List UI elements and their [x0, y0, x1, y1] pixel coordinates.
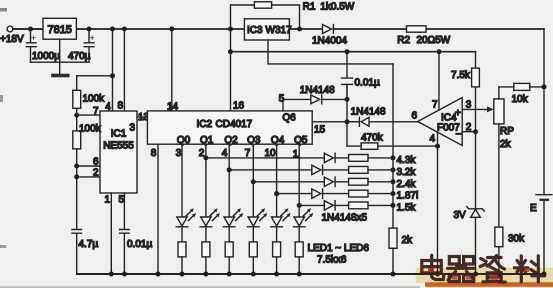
ladder row Q3 2.4k	[251, 177, 417, 190]
capacitor 0.01µ top	[342, 52, 353, 100]
svg-text:470µ: 470µ	[68, 51, 91, 62]
terminal +18V input	[7, 26, 13, 32]
svg-text:IC2: IC2	[197, 119, 213, 130]
svg-text:1: 1	[105, 195, 111, 206]
wire NE555 pin8 vertical	[123, 29, 125, 111]
svg-text:7815: 7815	[47, 24, 71, 36]
wire pin3 to CD4017 pin13	[137, 116, 147, 118]
svg-text:+: +	[455, 108, 461, 119]
node pin2	[74, 174, 79, 179]
zener 3V	[471, 209, 481, 217]
watermark char zi	[480, 256, 505, 283]
diode 1N4148 D2	[347, 117, 418, 126]
wire ladder bus vertical	[392, 64, 394, 228]
wire pin5 Q6 stub	[282, 99, 284, 111]
svg-text:R1: R1	[303, 2, 316, 13]
resistor R2	[407, 26, 427, 32]
wire second rail +15V y=51.7	[231, 51, 476, 53]
svg-text:6: 6	[411, 111, 417, 122]
resistor 470k	[347, 145, 438, 147]
svg-text:LED1 ~ LED6: LED1 ~ LED6	[308, 243, 370, 254]
svg-text:Q5: Q5	[294, 135, 308, 146]
svg-text:0.01µ: 0.01µ	[355, 78, 380, 89]
svg-text:Q3: Q3	[247, 135, 261, 146]
svg-text:Q6: Q6	[282, 113, 296, 124]
svg-text:5: 5	[119, 195, 125, 206]
wire pin14 clock	[171, 29, 173, 111]
resistor 2k bus	[389, 228, 397, 248]
svg-text:1N4148: 1N4148	[300, 85, 335, 96]
svg-text:7: 7	[432, 100, 438, 111]
svg-text:1000µ: 1000µ	[32, 51, 60, 62]
svg-text:4.7µ: 4.7µ	[79, 239, 99, 250]
wire IC3 input / CD4017 pin16 vertical	[230, 5, 232, 111]
node pin7	[74, 113, 79, 118]
svg-text:R2: R2	[397, 35, 410, 46]
svg-text:CD4017: CD4017	[216, 119, 253, 130]
svg-text:100k: 100k	[83, 94, 106, 105]
svg-text:−: −	[456, 129, 462, 141]
svg-text:IC3: IC3	[247, 25, 263, 36]
svg-text:Q1: Q1	[200, 135, 214, 146]
svg-text:+18V: +18V	[0, 34, 24, 45]
LED LED3	[223, 144, 243, 274]
svg-text:2k: 2k	[402, 235, 414, 246]
wire pin5	[123, 193, 125, 230]
svg-text:7.5k: 7.5k	[451, 70, 471, 81]
potentiometer RP 2k	[494, 99, 504, 124]
svg-text:E: E	[530, 203, 537, 214]
svg-text:4: 4	[105, 102, 111, 113]
svg-text:RP: RP	[500, 126, 514, 137]
wire main +15V rail top	[13, 28, 544, 30]
svg-text:7.5kx6: 7.5kx6	[317, 255, 347, 266]
node bottom rail junctions	[109, 272, 547, 277]
watermark char qi	[448, 257, 475, 282]
timer IC1 NE555	[100, 111, 137, 193]
svg-text:Q2: Q2	[224, 135, 238, 146]
svg-text:2k: 2k	[500, 139, 512, 150]
svg-text:20Ω5W: 20Ω5W	[417, 35, 451, 46]
svg-text:1N4148x5: 1N4148x5	[322, 213, 368, 224]
ground	[59, 39, 61, 73]
svg-text:15: 15	[314, 125, 326, 136]
svg-text:+: +	[90, 33, 95, 43]
svg-text:6: 6	[93, 157, 99, 168]
svg-text:NE555: NE555	[103, 141, 134, 152]
wire cap bottoms join	[31, 61, 90, 63]
svg-text:30k: 30k	[508, 234, 525, 245]
resistor 100k lower	[73, 131, 81, 149]
ladder row Q4 1.87l	[274, 189, 418, 202]
svg-text:Q0: Q0	[177, 135, 191, 146]
wire op-amp pin4	[437, 133, 439, 274]
wire pin2	[77, 176, 100, 178]
wire pin1 to ground	[110, 193, 112, 274]
wire op-amp pin7	[438, 52, 440, 110]
svg-text:Q4: Q4	[271, 135, 285, 146]
svg-text:8: 8	[151, 148, 157, 159]
wire pin15 reset from op-amp	[312, 121, 357, 123]
wire 100k top link	[77, 75, 113, 77]
svg-text:3: 3	[176, 148, 182, 159]
wire bottom ground rail	[77, 273, 544, 275]
wire pin6	[77, 165, 100, 167]
LED LED6	[293, 144, 313, 274]
LED LED1	[176, 144, 196, 274]
wire R1 loop top	[231, 5, 300, 29]
op-amp IC4 F007	[418, 98, 463, 146]
svg-text:1N4148: 1N4148	[351, 107, 386, 118]
svg-text:1N4004: 1N4004	[312, 36, 347, 47]
svg-text:14: 14	[167, 102, 179, 113]
svg-text:W317: W317	[266, 25, 293, 36]
svg-text:1k0.5W: 1k0.5W	[320, 2, 354, 13]
wire pin7	[77, 114, 100, 116]
wire NE555 pin4 vertical	[112, 29, 114, 111]
svg-text:1.5k: 1.5k	[397, 202, 417, 213]
svg-text:4.3k: 4.3k	[397, 155, 417, 166]
svg-text:+: +	[31, 33, 36, 43]
node pin6	[74, 164, 79, 169]
counter IC2 CD4017	[147, 111, 312, 144]
svg-text:IC1: IC1	[111, 129, 127, 140]
watermark char dian	[422, 255, 444, 279]
svg-text:470k: 470k	[361, 133, 384, 144]
svg-text:2: 2	[466, 122, 472, 133]
watermark 电器资料	[422, 255, 545, 282]
node second rail start	[228, 49, 233, 54]
regulator 7815	[43, 18, 76, 39]
watermark char liao	[514, 256, 544, 282]
node rail junctions	[28, 27, 302, 32]
resistor 10k	[499, 86, 544, 88]
resistor 100k upper	[76, 76, 78, 131]
resistor 7.5k	[475, 52, 477, 209]
svg-text:4: 4	[429, 134, 435, 145]
scan edge smudges	[0, 8, 7, 12]
resistor 30k	[495, 227, 503, 247]
capacitor C1 1000µ	[26, 29, 36, 62]
capacitor 0.01µ pin5	[120, 230, 130, 275]
svg-text:3: 3	[466, 100, 472, 111]
svg-text:7: 7	[93, 106, 99, 117]
svg-text:10k: 10k	[512, 94, 529, 105]
wire pin8 ground	[157, 144, 159, 274]
diode 1N4004	[323, 25, 332, 34]
svg-text:1.87l: 1.87l	[397, 191, 419, 202]
wire W317 ADJ to ladder bus	[268, 40, 393, 64]
LED LED2	[200, 144, 220, 274]
ladder row Q2 3.2k	[227, 165, 417, 178]
svg-text:16: 16	[233, 101, 245, 112]
svg-text:2.4k: 2.4k	[397, 179, 417, 190]
capacitor C2 470µ	[84, 29, 94, 62]
svg-text:8: 8	[117, 101, 123, 112]
ladder row Q5 1.5k	[297, 201, 417, 214]
LED LED4	[248, 144, 268, 274]
svg-text:100k: 100k	[79, 124, 102, 135]
battery E	[536, 194, 552, 196]
wire D-node vertical	[346, 84, 348, 146]
wire op-amp pin3 to pot wiper	[462, 108, 489, 110]
ladder row Q1 4.3k	[203, 153, 416, 166]
resistor R1 1k0.5W	[254, 2, 271, 8]
diode 1N4148 D1	[283, 95, 347, 104]
watermark band	[416, 268, 553, 283]
wire op-amp pin2	[462, 131, 475, 133]
svg-text:3V: 3V	[454, 210, 467, 221]
svg-text:3.2k: 3.2k	[397, 167, 417, 178]
capacitor 4.7µ	[72, 230, 82, 275]
svg-text:2: 2	[93, 168, 99, 179]
regulator IC3 W317	[244, 19, 289, 40]
svg-text:0.01µ: 0.01µ	[127, 239, 152, 250]
LED LED5	[271, 144, 291, 274]
node pin4 link	[110, 73, 115, 78]
wire right edge vertical to battery	[543, 29, 545, 274]
svg-text:3: 3	[130, 123, 136, 134]
